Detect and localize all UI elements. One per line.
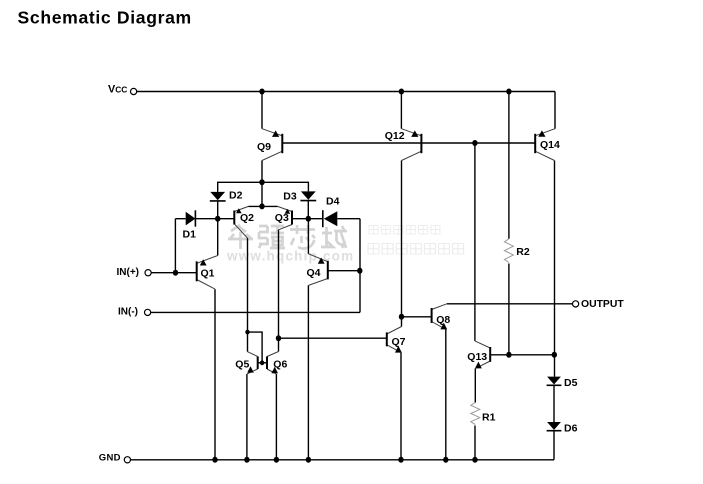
resistor R1	[471, 403, 480, 425]
junction node GND Q1	[212, 457, 217, 463]
terminal IN+	[145, 270, 151, 276]
transistor Q9 collector diagonal	[262, 151, 282, 160]
svg-text:Q6: Q6	[273, 359, 287, 371]
transistor Q9 base bar	[281, 134, 283, 153]
watermark 华强集团旗下	[369, 226, 440, 235]
wire rail above D2 D3	[218, 182, 309, 192]
svg-text:R2: R2	[516, 246, 530, 258]
transistor Q4 collector diagonal	[308, 279, 327, 286]
terminal OUTPUT	[573, 301, 579, 307]
transistor Q2 emitter diagonal	[234, 206, 248, 211]
junction node Q7 collector Q8 base	[399, 314, 404, 320]
transistor Q5 base bar	[257, 357, 259, 370]
wire Q9 emitter column	[261, 92, 263, 129]
wire Q12 collector to Q7 collector	[401, 161, 403, 327]
junction node VCC-Q12	[399, 89, 404, 95]
junction node GND R1	[472, 457, 477, 463]
wire D1 cathode to Q2 base	[195, 218, 234, 220]
svg-text:Q2: Q2	[240, 212, 254, 224]
wire D5 to D6	[553, 385, 555, 422]
transistor Q2 collector diagonal	[234, 224, 247, 238]
wire Q5 Q6 base bridge	[258, 362, 267, 364]
svg-text:D2: D2	[229, 190, 243, 202]
transistor Q1 emitter diagonal	[197, 256, 218, 264]
wire Q9 collector column	[261, 161, 263, 183]
terminal IN-	[145, 309, 151, 315]
transistor Q14 emitter diagonal	[535, 129, 555, 136]
transistor Q13 collector diagonal	[475, 341, 490, 348]
transistor Q6 emitter diagonal	[267, 369, 276, 374]
wire IN+ to Q1 base	[151, 272, 196, 274]
svg-text:Q5: Q5	[235, 359, 249, 371]
junction node Q5 mirror tap	[245, 330, 249, 335]
junction node Q9 collector rail	[259, 179, 264, 185]
transistor Q1 collector diagonal	[197, 280, 215, 290]
wire R2 top column	[508, 92, 510, 239]
wire VCC rail	[137, 91, 555, 93]
transistor Q5 emitter arrow	[247, 366, 254, 372]
diode D6	[547, 422, 562, 431]
svg-text:Q7: Q7	[392, 336, 406, 348]
svg-text:D5: D5	[564, 377, 578, 389]
terminal VCC	[131, 88, 137, 94]
svg-text:GND: GND	[99, 453, 121, 464]
transistor Q4 emitter diagonal	[308, 254, 327, 262]
wire base rail Q9 Q12 Q14	[282, 142, 535, 144]
transistor Q12 emitter arrow	[411, 130, 418, 137]
wire D6 to GND	[553, 431, 555, 460]
transistor Q1 base bar	[196, 261, 198, 281]
transistor Q3 collector diagonal	[279, 225, 293, 230]
diode D4	[323, 210, 338, 227]
transistor Q7 emitter diagonal	[387, 345, 401, 353]
transistor Q14 emitter arrow	[538, 130, 545, 136]
wire GND rail	[131, 459, 554, 461]
junction node Q2 Q3 emitters	[259, 203, 264, 209]
wire Q8 base	[402, 316, 432, 318]
transistor Q6 collector diagonal	[267, 352, 279, 357]
transistor Q4 emitter arrow	[318, 258, 325, 264]
junction node GND Q6	[274, 457, 279, 463]
transistor Q5 emitter diagonal	[247, 369, 258, 374]
transistor Q14 base bar	[534, 134, 536, 153]
wire R2 bottom column	[508, 264, 510, 356]
svg-text:Q13: Q13	[467, 351, 487, 363]
transistor Q13 base bar	[489, 347, 491, 362]
junction node IN+ branch	[173, 270, 178, 276]
wire Q2 collector column	[247, 238, 249, 352]
wire Q13 collector column	[474, 143, 476, 341]
wire Q14 emitter column	[554, 92, 556, 129]
svg-text:VCC: VCC	[108, 84, 127, 96]
watermark 华强芯城	[228, 225, 347, 249]
transistor Q1 emitter arrow	[200, 259, 207, 265]
wire Q5 emitter column	[246, 374, 248, 460]
junction node D1 D2 Q2 base	[215, 216, 220, 222]
svg-text:OUTPUT: OUTPUT	[581, 299, 624, 310]
junction node D3 D4 Q3 base	[306, 216, 311, 222]
transistor Q2 emitter arrow	[236, 208, 242, 213]
svg-text:Q12: Q12	[385, 130, 405, 142]
transistor Q8 emitter diagonal	[432, 322, 446, 330]
junction node base rail Q13	[472, 140, 477, 146]
wire Q6 emitter column	[275, 374, 277, 460]
wire Q1 emitter column	[217, 219, 219, 256]
svg-text:Schematic Diagram: Schematic Diagram	[18, 7, 192, 27]
junction node Q5 Q6 bases	[260, 360, 264, 365]
transistor Q3 emitter arrow	[285, 209, 291, 214]
wire Q4 collector column	[307, 285, 309, 459]
transistor Q7 base bar	[386, 332, 388, 346]
diode D2	[210, 192, 226, 201]
transistor Q12 collector diagonal	[402, 151, 422, 160]
junction node GND Q7	[398, 457, 403, 463]
wire center column to Q2 Q3 emitters	[261, 182, 263, 206]
svg-text:Q3: Q3	[275, 212, 289, 224]
diode D1	[186, 210, 196, 226]
transistor Q13 emitter arrow	[475, 362, 482, 369]
transistor Q7 emitter arrow	[395, 346, 402, 353]
transistor Q14 collector diagonal	[535, 151, 554, 160]
svg-text:IN(+): IN(+)	[117, 267, 140, 278]
transistor Q5 collector diagonal	[248, 352, 258, 357]
svg-text:D4: D4	[326, 196, 340, 208]
transistor Q13 emitter diagonal	[475, 361, 490, 369]
transistor Q8 base bar	[431, 308, 433, 323]
transistor Q7 collector diagonal	[387, 327, 402, 335]
diode D3	[300, 191, 316, 200]
wire Q13 emitter to R1	[474, 369, 476, 403]
wire D4 anode to corner	[337, 218, 360, 220]
wire Q1 collector column	[214, 289, 216, 460]
wire Q2 Q3 emitter rail	[249, 205, 278, 207]
transistor Q9 emitter arrow	[272, 130, 279, 137]
wire D1 anode column	[174, 219, 176, 273]
svg-text:Q14: Q14	[540, 139, 560, 151]
transistor Q2 base bar	[233, 211, 235, 225]
wire D3 cathode to node	[307, 201, 309, 219]
wire Q3 base to D4	[292, 218, 323, 220]
transistor Q4 base bar	[327, 261, 329, 280]
junction node Q6 collector	[276, 335, 281, 341]
junction node Q4 base branch	[357, 268, 362, 274]
wire D2 cathode to node	[217, 201, 219, 219]
wire Q3 Q6 collector column	[278, 230, 280, 352]
junction node Q14 collector D5	[552, 352, 557, 358]
diode D5	[547, 377, 562, 386]
svg-text:Q8: Q8	[436, 314, 450, 326]
transistor Q12 emitter diagonal	[401, 129, 421, 136]
junction node GND Q8	[443, 457, 448, 463]
wire Q14 collector column	[554, 161, 556, 377]
transistor Q12 base bar	[420, 134, 422, 153]
transistor Q3 emitter diagonal	[278, 206, 293, 211]
wire Q4 base	[328, 270, 360, 272]
wire R1 bottom	[474, 426, 476, 460]
svg-text:IN(-): IN(-)	[118, 307, 138, 318]
wire right column x360	[359, 219, 361, 313]
wire Q4 emitter column	[307, 219, 309, 254]
junction node GND Q4	[306, 457, 311, 463]
junction node GND Q5	[244, 457, 249, 463]
transistor Q3 base bar	[291, 211, 293, 225]
svg-text:Q9: Q9	[257, 141, 271, 153]
transistor Q9 emitter diagonal	[262, 129, 282, 136]
svg-text:R1: R1	[482, 411, 496, 423]
wire Q5 mirror link	[248, 332, 263, 363]
wire Q13 base row	[490, 354, 554, 356]
terminal GND	[124, 457, 130, 463]
svg-text:D6: D6	[564, 423, 578, 435]
svg-text:D3: D3	[283, 191, 297, 203]
junction node R2 Q13 base	[506, 352, 511, 358]
wire IN- row	[151, 311, 360, 313]
wire Q12 emitter column	[400, 92, 402, 129]
svg-text:Q1: Q1	[201, 268, 215, 280]
svg-text:D1: D1	[183, 229, 197, 241]
transistor Q8 collector diagonal	[432, 304, 447, 310]
junction node VCC-Q9	[259, 89, 264, 95]
wire output row	[447, 303, 573, 305]
transistor Q8 emitter arrow	[440, 323, 447, 330]
wire Q6 collector to Q7 base	[279, 337, 387, 339]
transistor Q6 emitter arrow	[271, 367, 278, 373]
svg-text:www.hqchip.com: www.hqchip.com	[226, 249, 354, 264]
junction node VCC-R2	[506, 89, 511, 95]
transistor Q6 base bar	[266, 357, 268, 370]
wire D1 anode row	[175, 218, 185, 220]
resistor R2	[504, 239, 513, 263]
watermark 元器件在线商城	[368, 244, 464, 255]
svg-text:Q4: Q4	[307, 267, 321, 279]
wire Q7 emitter column	[400, 353, 402, 460]
wire Q8 emitter column	[445, 329, 447, 459]
